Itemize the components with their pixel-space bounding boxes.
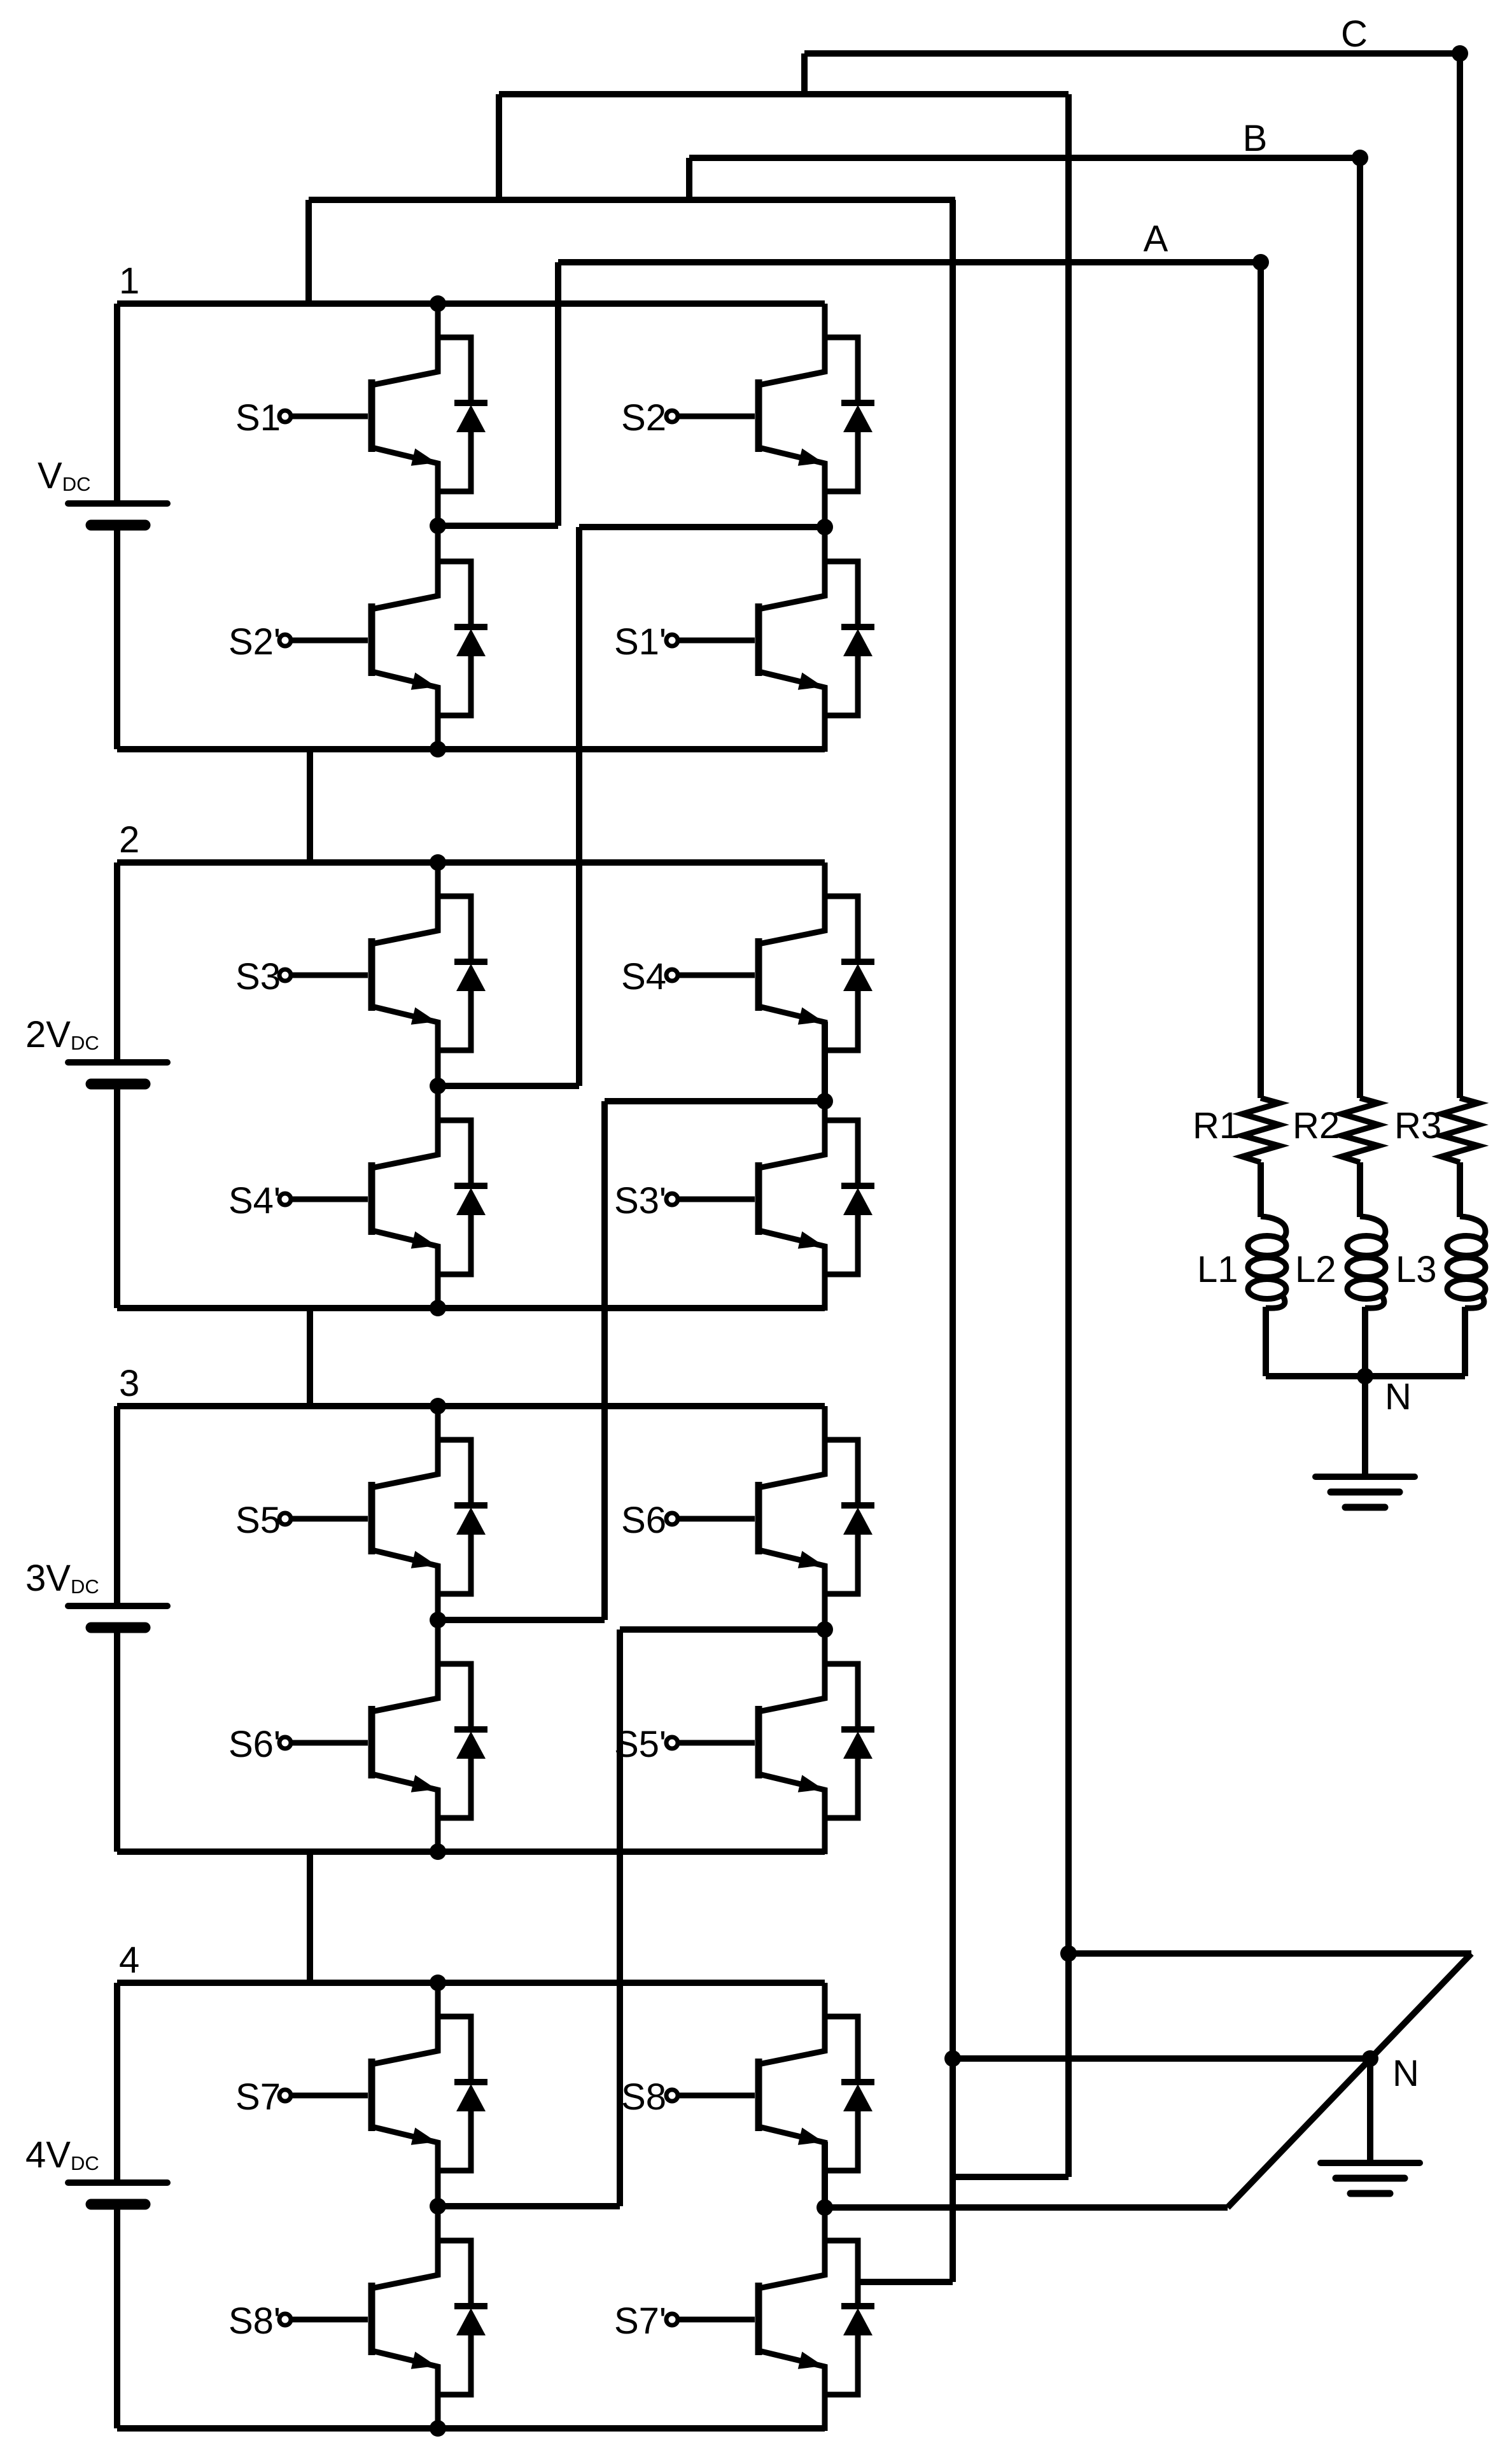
transistor S6&#39; IGBT with antiparallel diode (279, 1630, 487, 1854)
wire: load neutral joining bus (1266, 1373, 1465, 1379)
wire: ground plane slanted edge (1228, 1954, 1471, 2207)
wire: series link cell1 bottom to cell2 top (307, 749, 313, 862)
svg-text:S3: S3 (235, 956, 281, 997)
node cell 2 left midpoint dot (430, 1078, 446, 1094)
wire: link cell1 right mid down to cell2 left mid (438, 527, 579, 1086)
wire: long right bus from bus 2 down to ground plane edge (1065, 94, 1072, 2177)
wire: R2 to L2 (1357, 1162, 1363, 1217)
svg-text:R2: R2 (1293, 1105, 1340, 1146)
wire: B line drop onto bus 4 (686, 158, 692, 200)
transistor S5&#39; IGBT with antiparallel diode (666, 1630, 874, 1854)
transistor S1 IGBT with antiparallel diode (279, 304, 487, 528)
wire: link cell3 right mid down to cell4 left mid (438, 1630, 620, 2206)
wire: jog bus2 drop to right bus (953, 2174, 1069, 2180)
svg-text:S5: S5 (235, 1500, 281, 1541)
wire: L2 to neutral bus (1362, 1307, 1368, 1376)
wire: phase feeder down to R1 (1258, 262, 1264, 1098)
transistor S2&#39; IGBT with antiparallel diode (279, 528, 487, 752)
resistor R3 (1441, 1098, 1478, 1162)
wire: L1 to neutral bus (1263, 1307, 1269, 1376)
svg-text:1: 1 (119, 260, 139, 302)
svg-text:N: N (1392, 2053, 1419, 2094)
wire: load neutral to ground (1362, 1376, 1368, 1477)
wire: right bus lower jog to S7 prime diode (858, 2279, 953, 2285)
wire: horizontal bus 2 (499, 91, 1069, 97)
node cell 3 top rail junction dot (430, 1398, 446, 1414)
wire: L3 to neutral bus (1462, 1307, 1468, 1376)
svg-text:3: 3 (119, 1363, 139, 1404)
transistor S1&#39; IGBT with antiparallel diode (666, 528, 874, 752)
transistor S3 IGBT with antiparallel diode (279, 862, 487, 1087)
node B terminal dot (1352, 150, 1368, 166)
svg-text:S2: S2 (621, 397, 666, 439)
inductor L3 (1447, 1216, 1485, 1308)
node bus-to-plane junction dot (1060, 1945, 1077, 1962)
resistor R1 (1242, 1098, 1279, 1162)
svg-text:L3: L3 (1396, 1249, 1437, 1290)
resistor R2 (1342, 1098, 1378, 1162)
wire: cell 3 bottom rail (117, 1848, 825, 1855)
node load neutral N dot (1357, 1368, 1373, 1384)
wire: cell 2 right midpoint tap (605, 1098, 825, 1104)
wire: series link cell2 bottom to cell3 top (307, 1308, 313, 1406)
svg-text:C: C (1341, 13, 1368, 55)
svg-text:S1: S1 (235, 397, 281, 439)
transistor S7 IGBT with antiparallel diode (279, 1983, 487, 2207)
svg-text:S6: S6 (621, 1500, 666, 1541)
wire: long right bus from bus 4 down to lower N wire (950, 200, 956, 2282)
transistor S5 IGBT with antiparallel diode (279, 1406, 487, 1630)
wire: cell 1 top rail (117, 300, 825, 307)
svg-text:R1: R1 (1193, 1105, 1240, 1146)
wire: cell 1 right midpoint tap (579, 524, 825, 530)
wire: A drop to cell 1 left midpoint (555, 262, 561, 526)
svg-text:S2': S2' (228, 621, 281, 663)
wire: horizontal bus 4 (309, 197, 955, 203)
battery V3 source 3Vdc left side (114, 1406, 120, 1606)
node cell 4 top rail junction dot (430, 1975, 446, 1991)
node cell 1 left midpoint dot (430, 517, 446, 534)
battery V4 source 4Vdc left side (114, 1983, 120, 2183)
node lower neutral N dot (1362, 2050, 1378, 2067)
wire: cell 2 right leg midpoint extension (822, 1022, 828, 1101)
transistor S2 IGBT with antiparallel diode (666, 304, 874, 528)
wire: phase A output line (558, 259, 1261, 265)
wire: bus 2 left drop onto bus 4 (496, 94, 502, 200)
node cell 1 top rail junction dot (430, 295, 446, 312)
wire: cell 4 top rail (117, 1980, 825, 1986)
node cell 3 bottom rail junction dot (430, 1843, 446, 1860)
node cell 4 left midpoint dot (430, 2198, 446, 2214)
transistor S8 IGBT with antiparallel diode (666, 1983, 874, 2207)
svg-text:S8: S8 (621, 2076, 666, 2118)
wire: phase feeder down to R3 (1457, 53, 1463, 1098)
svg-text:A: A (1144, 218, 1168, 260)
transistor S8&#39; IGBT with antiparallel diode (279, 2207, 487, 2431)
wire: R3 to L3 (1457, 1162, 1463, 1217)
battery V1 source 1Vdc left side (114, 304, 120, 503)
wire: right bus to lower neutral N (953, 2055, 1371, 2062)
wire: cell 2 bottom rail (117, 1305, 825, 1311)
inductor L2 (1347, 1216, 1385, 1308)
ground symbol at lower neutral (1321, 2163, 1420, 2193)
wire: cell 1 left midpoint tap to phase A (438, 523, 558, 529)
battery V2 source 2Vdc left side (114, 862, 120, 1062)
node cell 4 right midpoint dot (817, 2199, 833, 2216)
ground symbol at load neutral (1315, 1477, 1415, 1507)
wire: series link cell3 bottom to cell4 top (307, 1852, 313, 1983)
wire: cell 1 bottom rail (117, 746, 825, 752)
node cell 3 right midpoint dot (817, 1621, 833, 1638)
svg-text:L1: L1 (1197, 1249, 1238, 1290)
wire: C line drop to bus 2 (801, 53, 808, 94)
svg-text:2: 2 (119, 819, 139, 861)
wire: cell 2 top rail (117, 859, 825, 866)
svg-text:S7': S7' (614, 2300, 666, 2342)
svg-text:4: 4 (119, 1940, 139, 1981)
wire: phase B output line (689, 155, 1360, 161)
wire: ground plane top edge (1069, 1950, 1471, 1957)
svg-text:S3': S3' (614, 1180, 666, 1221)
wire: phase feeder down to R2 (1357, 158, 1363, 1098)
svg-text:S7: S7 (235, 2076, 281, 2118)
inductor L1 (1248, 1216, 1286, 1308)
node cell 2 bottom rail junction dot (430, 1300, 446, 1316)
wire: phase C output line (804, 50, 1460, 57)
transistor S6 IGBT with antiparallel diode (666, 1406, 874, 1630)
transistor S7&#39; IGBT with antiparallel diode (666, 2207, 874, 2431)
wire: cell 4 right midpoint tap to ground plane (825, 2204, 1228, 2211)
wire: lower neutral to ground (1367, 2059, 1373, 2163)
transistor S4&#39; IGBT with antiparallel diode (279, 1087, 487, 1311)
svg-text:N: N (1385, 1376, 1412, 1418)
svg-text:B: B (1243, 118, 1268, 159)
wire: cell 4 bottom rail (117, 2425, 825, 2432)
svg-text:S6': S6' (228, 1724, 281, 1765)
wire: cell 4 right leg midpoint extension (822, 2142, 828, 2207)
wire: bus 4 left drop to cell 1 top rail (305, 200, 312, 304)
svg-text:S8': S8' (228, 2300, 281, 2342)
svg-text:S4: S4 (621, 956, 666, 997)
node cell 4 bottom rail junction dot (430, 2420, 446, 2437)
node right bus junction dot (944, 2050, 961, 2067)
node cell 3 left midpoint dot (430, 1612, 446, 1628)
node cell 2 right midpoint dot (817, 1093, 833, 1109)
wire: R1 to L1 (1258, 1162, 1264, 1217)
wire: link cell2 right mid down to cell3 left mid (438, 1101, 605, 1620)
svg-text:S4': S4' (228, 1180, 281, 1221)
svg-text:L2: L2 (1295, 1249, 1336, 1290)
svg-text:R3: R3 (1394, 1105, 1441, 1146)
node C terminal dot (1452, 45, 1468, 62)
node cell 1 right midpoint dot (817, 519, 833, 535)
node A terminal dot (1252, 254, 1269, 271)
wire: cell 3 top rail (117, 1403, 825, 1409)
svg-text:S1': S1' (614, 621, 666, 663)
wire: cell 3 right midpoint tap (620, 1626, 825, 1633)
node cell 2 top rail junction dot (430, 854, 446, 871)
node cell 1 bottom rail junction dot (430, 741, 446, 757)
transistor S4 IGBT with antiparallel diode (666, 862, 874, 1087)
transistor S3&#39; IGBT with antiparallel diode (666, 1087, 874, 1311)
